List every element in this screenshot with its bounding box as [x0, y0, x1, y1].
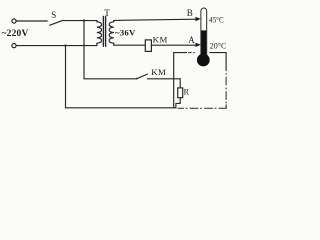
svg-text:~36V: ~36V — [115, 27, 136, 37]
svg-text:B: B — [187, 8, 193, 18]
svg-text:R: R — [184, 88, 190, 97]
svg-text:45°C: 45°C — [209, 15, 224, 25]
svg-text:KM: KM — [151, 67, 166, 77]
svg-text:T: T — [104, 8, 110, 18]
svg-text:KM: KM — [153, 34, 168, 44]
svg-text:20°C: 20°C — [210, 41, 227, 51]
svg-text:~220V: ~220V — [2, 29, 29, 39]
svg-text:S: S — [51, 10, 56, 20]
svg-text:A: A — [188, 35, 195, 45]
